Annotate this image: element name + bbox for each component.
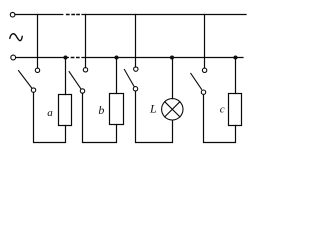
switch S1 (19, 68, 40, 92)
wire top bus right segment (82, 14, 246, 16)
wire bus to resistor c (235, 58, 237, 94)
wire second bus left segment (16, 57, 69, 59)
svg-text:c: c (220, 103, 225, 115)
wire switch S1 to bottom and to load a (34, 93, 66, 143)
lamp L (162, 99, 183, 120)
switch S4 (191, 68, 207, 94)
wire feed drop to switch S1 (37, 15, 39, 69)
svg-text:b: b (98, 103, 104, 117)
wire feed drop to switch S4 (204, 15, 206, 68)
resistor b (110, 94, 124, 125)
node dot junction a (63, 55, 67, 59)
resistor c (229, 94, 242, 126)
node dot junction c (233, 55, 237, 59)
node dot junction b (114, 55, 118, 59)
wire second bus right segment (82, 57, 243, 59)
wire feed drop to switch S2 (85, 15, 87, 68)
resistor a (59, 95, 72, 126)
wire top bus dashed break (67, 14, 80, 16)
wire switch S2 to bottom and to load b (83, 93, 117, 142)
terminal circle top-left (10, 12, 15, 17)
svg-text:L: L (149, 102, 157, 116)
wire feed drop to switch S3 (135, 15, 137, 68)
wire second bus dashed break (71, 57, 79, 59)
wire switch S3 to bottom and to lamp L (136, 91, 173, 142)
switch S2 (69, 68, 88, 94)
wire top bus left segment (15, 14, 63, 16)
wire bus to lamp L (172, 58, 174, 99)
svg-text:a: a (47, 107, 53, 119)
wire bus to resistor a (65, 58, 67, 95)
wire switch S4 to bottom and to load c (204, 95, 236, 143)
wire bus to resistor b (116, 58, 118, 94)
switch S3 (124, 67, 138, 91)
node dot junction L (170, 55, 174, 59)
terminal circle lower-left (11, 55, 16, 60)
AC source symbol ~ (10, 34, 22, 41)
